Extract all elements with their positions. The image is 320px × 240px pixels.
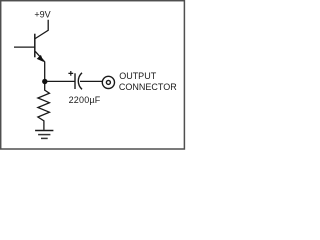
svg-text:OUTPUT: OUTPUT [119,71,157,81]
svg-text:2200µF: 2200µF [69,95,101,105]
svg-text:CONNECTOR: CONNECTOR [119,82,177,92]
svg-text:+9V: +9V [34,10,50,20]
